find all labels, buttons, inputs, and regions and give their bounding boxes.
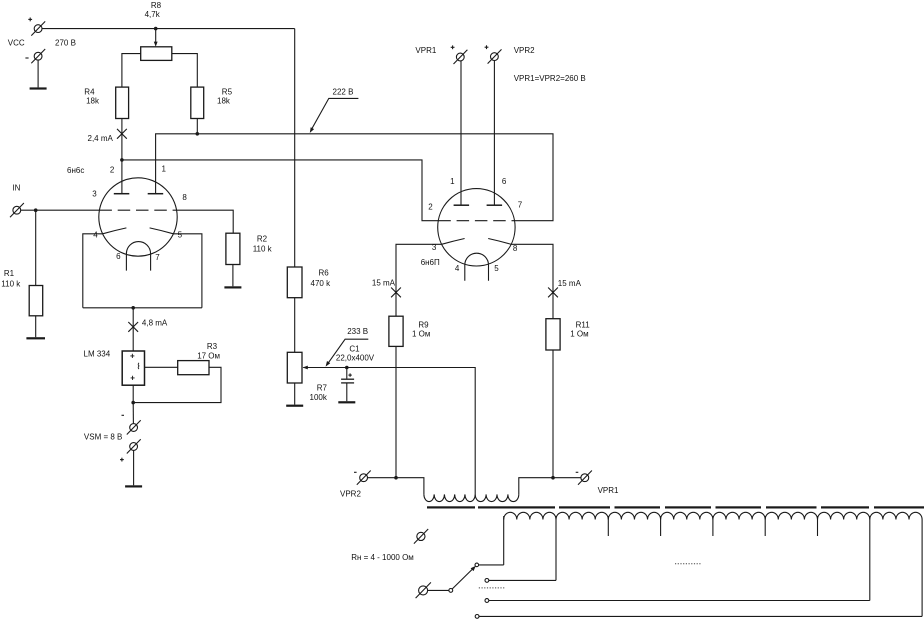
V2 heater bbox=[465, 253, 489, 281]
svg-text:C1: C1 bbox=[349, 345, 360, 354]
svg-text:VPR1: VPR1 bbox=[598, 486, 619, 495]
transformer T1 primary winding left half bbox=[424, 494, 475, 501]
wire R8 right terminal to R5 bbox=[172, 54, 198, 88]
svg-text:15 mA: 15 mA bbox=[558, 279, 582, 288]
svg-text:R11: R11 bbox=[576, 321, 591, 330]
power terminal VCC+ bbox=[31, 21, 45, 35]
svg-text:VPR1: VPR1 bbox=[415, 46, 436, 55]
V2 cathode a bbox=[442, 239, 465, 245]
potentiometer R8 body bbox=[141, 47, 172, 61]
wire R8 left terminal to R4 bbox=[122, 54, 141, 88]
U1 pin mark R bbox=[137, 363, 140, 369]
V1 cathode b bbox=[150, 228, 174, 234]
svg-text:6н6П: 6н6П bbox=[421, 258, 440, 267]
svg-text:R9: R9 bbox=[418, 321, 429, 330]
wire R8 wiper with arrow bbox=[154, 29, 158, 47]
svg-text:+: + bbox=[130, 373, 135, 382]
transformer T1 primary winding right half bbox=[475, 494, 519, 501]
secondary tap stub 6 bbox=[764, 516, 766, 536]
label VCC+ plus sign bbox=[28, 18, 32, 22]
svg-text:VPR2: VPR2 bbox=[340, 489, 361, 498]
svg-text:7: 7 bbox=[518, 200, 523, 209]
wire contact 2 to tap 2 bbox=[489, 579, 556, 581]
wire node to VSM- terminal bbox=[132, 403, 134, 424]
svg-text:4,7k: 4,7k bbox=[145, 10, 161, 19]
secondary end tap bbox=[921, 520, 923, 617]
svg-text:15 mA: 15 mA bbox=[372, 278, 396, 287]
svg-text:8: 8 bbox=[182, 193, 187, 202]
VPR1 plus sign bbox=[451, 45, 455, 49]
svg-text:Rн = 4 - 1000 Ом: Rн = 4 - 1000 Ом bbox=[351, 553, 414, 562]
C1 polarity plus sign bbox=[348, 373, 351, 376]
wire VPR2 to V2 plate b bbox=[493, 61, 495, 205]
svg-text:222 В: 222 В bbox=[333, 87, 354, 96]
svg-text:470 k: 470 k bbox=[311, 279, 332, 288]
svg-text:R1: R1 bbox=[4, 269, 15, 278]
wire plate1 lead bbox=[121, 160, 123, 194]
ground below R2 bbox=[224, 286, 241, 288]
svg-text:4: 4 bbox=[455, 264, 460, 273]
V2 cathode b bbox=[488, 239, 511, 245]
power terminal VPR2- (bottom left) bbox=[357, 471, 371, 485]
svg-text:7: 7 bbox=[155, 253, 160, 262]
node junction R11/VPR1- bbox=[551, 476, 555, 480]
resistor R3 bbox=[178, 361, 209, 375]
wire V2 cathode a to R9 bbox=[396, 244, 442, 316]
resistor R9 bbox=[389, 316, 403, 346]
wire OUT to selector pole bbox=[428, 589, 449, 591]
svg-text:5: 5 bbox=[494, 264, 499, 273]
node junction plate1/R4 bbox=[120, 158, 124, 162]
node junction on B+ rail at R8 wiper bbox=[154, 27, 158, 31]
V2 anode plate a bbox=[454, 204, 470, 206]
ground below R1 bbox=[26, 337, 45, 339]
wire R7 to ground bbox=[294, 383, 296, 405]
node junction C1 tap bbox=[345, 366, 349, 370]
svg-text:1: 1 bbox=[162, 164, 167, 173]
svg-text:R6: R6 bbox=[319, 268, 330, 277]
secondary tap stub 7 bbox=[817, 516, 819, 536]
node junction R9/VPR2- bbox=[394, 476, 398, 480]
wire R2 to ground bbox=[232, 265, 234, 287]
svg-text:R3: R3 bbox=[207, 342, 218, 351]
wire V1 cathode b to common bbox=[173, 234, 202, 308]
wire C1 to ground bbox=[346, 384, 348, 402]
wire IN to grid of V1 bbox=[21, 209, 100, 211]
wire R1 to ground bbox=[35, 316, 37, 337]
svg-text:6: 6 bbox=[502, 177, 507, 186]
svg-text:VSM = 8 В: VSM = 8 В bbox=[84, 432, 122, 441]
svg-text:18k: 18k bbox=[217, 96, 231, 105]
label VSM plus sign bbox=[120, 458, 124, 462]
wire contact 3 to tap 8 bbox=[489, 600, 870, 602]
svg-text:1: 1 bbox=[450, 177, 455, 186]
wire LM334 bottom bbox=[132, 385, 134, 402]
wire R7 wiper to output transformer centre tap bbox=[303, 368, 475, 495]
svg-text:R4: R4 bbox=[84, 87, 95, 96]
wire down to R1 bbox=[35, 210, 37, 285]
svg-text:VPR2: VPR2 bbox=[514, 46, 535, 55]
input terminal IN bbox=[10, 203, 24, 217]
svg-text:2,4 mA: 2,4 mA bbox=[88, 134, 114, 143]
meter terminal VSM+ bbox=[127, 439, 141, 453]
ground below VSM bbox=[125, 485, 142, 487]
capacitor C1 plates bbox=[341, 379, 354, 383]
V2 grid (dashed) bbox=[438, 220, 514, 222]
svg-text:3: 3 bbox=[92, 190, 97, 199]
svg-text:5: 5 bbox=[178, 230, 183, 239]
output terminal OUT bottom bbox=[416, 582, 431, 598]
ground below VCC bbox=[30, 87, 47, 89]
V1 cathode a bbox=[103, 228, 127, 234]
selector contact 4 bbox=[475, 615, 479, 619]
resistor R2 bbox=[226, 233, 240, 264]
wire V1 grid to R2 bbox=[177, 210, 234, 233]
svg-text:IN: IN bbox=[12, 184, 20, 193]
svg-text:4,8 mA: 4,8 mA bbox=[142, 319, 168, 328]
current probe X 15 mA (left) bbox=[391, 288, 401, 298]
secondary tap 1 (start) down to selector bbox=[503, 516, 505, 565]
ellipsis dots between contacts bbox=[479, 587, 505, 589]
wire contact 1 to tap 1 bbox=[479, 564, 504, 566]
triode V1 6н6с envelope bbox=[99, 178, 177, 256]
node junction R5 / bus1 bbox=[196, 132, 200, 136]
svg-text:6н6с: 6н6с bbox=[67, 166, 84, 175]
wire cathode common bottom bbox=[83, 307, 202, 309]
node junction cathode common bbox=[131, 306, 135, 310]
svg-text:2: 2 bbox=[428, 203, 433, 212]
secondary tap 8 bbox=[869, 516, 871, 601]
svg-text:R2: R2 bbox=[257, 235, 268, 244]
power terminal VPR2+ bbox=[488, 49, 502, 63]
wire V1 cathode a to common bbox=[83, 234, 103, 308]
V2 pin numbers bbox=[428, 177, 523, 273]
wire R3 to V- node bbox=[133, 367, 221, 402]
wire primary end to VPR1- bbox=[519, 478, 581, 495]
wire contact 4 to secondary end bbox=[479, 615, 922, 617]
svg-text:110 k: 110 k bbox=[253, 244, 273, 253]
resistor R6 bbox=[287, 267, 302, 298]
wire LM334 R pin to R3 bbox=[145, 366, 178, 368]
wire drive bus 2 plate1 to right grid left side bbox=[122, 160, 438, 221]
wire B+ rail down to R6 bbox=[294, 29, 296, 267]
power terminal VPR1+ bbox=[454, 50, 468, 64]
label VCC- minus sign bbox=[25, 57, 28, 59]
VPR2- minus sign bbox=[354, 471, 357, 473]
svg-text:4: 4 bbox=[93, 231, 98, 240]
svg-text:100k: 100k bbox=[310, 393, 328, 402]
svg-text:VCC: VCC bbox=[8, 39, 25, 48]
selector pole contact bbox=[449, 589, 453, 593]
transformer T1 secondary winding bbox=[504, 512, 922, 519]
power terminal VCC- bbox=[31, 49, 45, 63]
svg-text:R7: R7 bbox=[317, 384, 328, 393]
V1 pin numbers bbox=[92, 164, 187, 262]
svg-text:LM 334: LM 334 bbox=[84, 349, 111, 358]
leader line 222 В with arrow bbox=[310, 98, 359, 132]
ground below C1 bbox=[338, 401, 355, 403]
wire R5 bottom to drive bus 1 bbox=[196, 119, 198, 134]
wire VSM+ to ground bbox=[133, 450, 135, 485]
VPR2 plus sign bbox=[485, 45, 489, 49]
V1 heater bbox=[126, 242, 150, 271]
svg-text:+: + bbox=[130, 351, 135, 360]
svg-text:8: 8 bbox=[513, 244, 518, 253]
capacitor C1 positive lead bbox=[346, 368, 348, 379]
svg-text:1 Ом: 1 Ом bbox=[412, 330, 430, 339]
wire drive bus 1 (222 V line) plate2 to right grid bbox=[156, 134, 553, 221]
secondary tap stub 3 bbox=[607, 516, 609, 536]
svg-text:110 k: 110 k bbox=[1, 280, 21, 289]
secondary tap stub 5 bbox=[712, 516, 714, 536]
svg-text:2: 2 bbox=[110, 165, 115, 174]
wire R11 to VPR1- node bbox=[552, 350, 554, 478]
svg-text:6: 6 bbox=[116, 252, 121, 261]
wire VPR2- to primary start bbox=[368, 478, 424, 495]
meter terminal VSM- bbox=[127, 420, 141, 434]
svg-text:R5: R5 bbox=[222, 87, 233, 96]
current probe X 15 mA (right) bbox=[548, 288, 558, 298]
ellipsis dots on secondary taps bbox=[675, 563, 702, 565]
svg-text:270 В: 270 В bbox=[55, 39, 76, 48]
wire V2 cathode b to R11 bbox=[511, 244, 553, 318]
svg-text:17 Ом: 17 Ом bbox=[197, 351, 220, 360]
svg-text:233 В: 233 В bbox=[347, 327, 368, 336]
current probe X 2,4 mA bbox=[117, 129, 127, 139]
wire VCC- to ground bbox=[37, 60, 39, 87]
wire cathode common to LM334 bbox=[132, 308, 134, 351]
wire B+ rail: VCC+ to corner x295 bbox=[42, 28, 295, 30]
secondary tap stub 4 bbox=[660, 516, 662, 536]
current probe X 4,8 mA bbox=[128, 322, 138, 332]
selector contact 3 bbox=[485, 599, 489, 603]
ground below R7 bbox=[286, 405, 303, 407]
wire R9 to VPR2- node bbox=[395, 346, 397, 477]
wire VPR1 to V2 plate a bbox=[460, 61, 462, 205]
selector contact 2 bbox=[485, 579, 489, 583]
power terminal VPR1- (bottom right) bbox=[578, 471, 592, 485]
svg-text:VPR1=VPR2=260 В: VPR1=VPR2=260 В bbox=[514, 74, 586, 83]
transformer T1 core laminations bbox=[427, 506, 924, 508]
V1 grid (dashed) bbox=[99, 209, 176, 211]
V1 anode plate b bbox=[148, 193, 164, 195]
resistor R1 bbox=[29, 286, 43, 316]
wire R6 to R7 bbox=[294, 298, 296, 353]
node junction IN/R1 bbox=[34, 208, 38, 212]
selector wiper arm with arrow bbox=[452, 566, 476, 589]
potentiometer R7 body bbox=[287, 352, 302, 383]
node junction LM334/R3 bbox=[131, 401, 135, 405]
selector contact 1 bbox=[475, 563, 479, 567]
resistor R5 bbox=[191, 87, 204, 118]
svg-text:22,0x400V: 22,0x400V bbox=[336, 354, 375, 363]
resistor R11 bbox=[546, 319, 560, 350]
svg-text:3: 3 bbox=[432, 243, 437, 252]
current source U1 LM334 body bbox=[122, 351, 144, 385]
leader line 233 В with arrow bbox=[326, 339, 369, 366]
V1 anode plate a bbox=[114, 193, 130, 195]
secondary tap 2 bbox=[555, 516, 557, 580]
wire R4 bottom to node bbox=[121, 119, 123, 160]
VPR1- minus sign bbox=[576, 471, 579, 473]
R7 wiper arrowhead bbox=[303, 366, 308, 370]
svg-text:18k: 18k bbox=[86, 96, 100, 105]
svg-text:1 Ом: 1 Ом bbox=[570, 330, 588, 339]
V2 anode plate b bbox=[487, 204, 503, 206]
label VSM minus sign bbox=[122, 414, 125, 416]
resistor R4 bbox=[116, 87, 129, 118]
output terminal OUT top bbox=[414, 529, 428, 544]
pentode V2 6н6П envelope bbox=[438, 189, 515, 266]
